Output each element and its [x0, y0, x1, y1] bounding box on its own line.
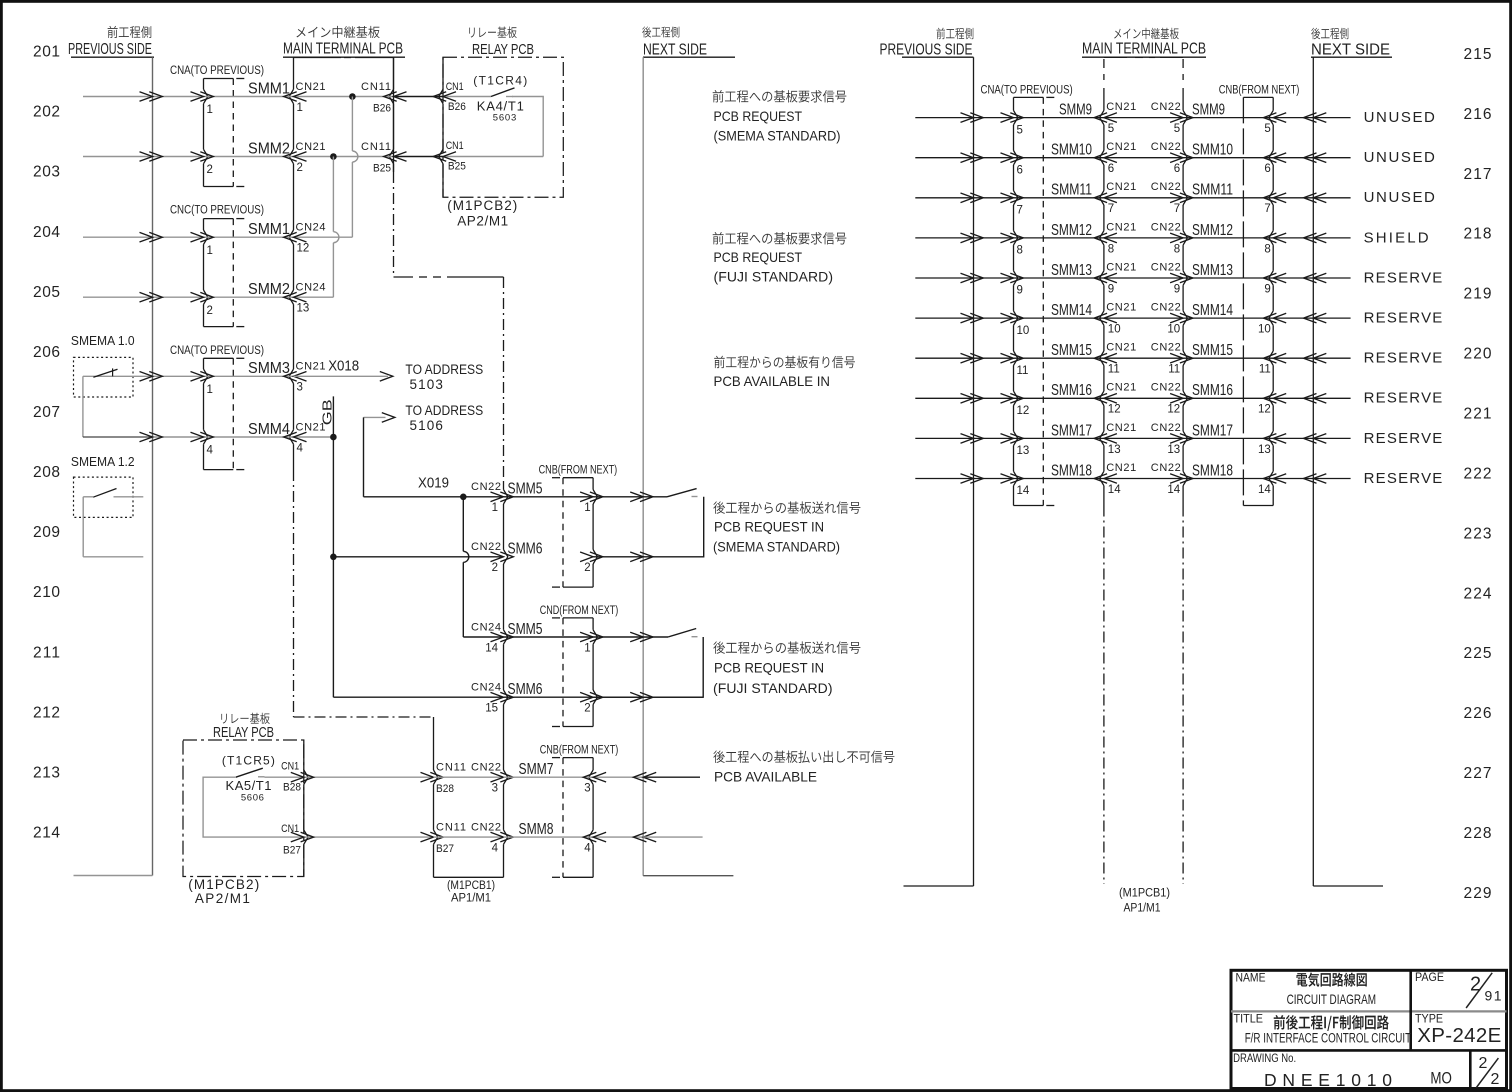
svg-text:225: 225 — [1464, 645, 1492, 662]
header MAIN TERMINAL PCB (right half) — [1114, 29, 1121, 39]
annotation PCB AVAILABLE — [713, 750, 725, 762]
svg-text:CN1: CN1 — [281, 760, 299, 772]
svg-text:10: 10 — [1108, 324, 1121, 336]
svg-text:DNEE1010: DNEE1010 — [1264, 1070, 1394, 1090]
svg-text:2: 2 — [1470, 973, 1481, 995]
svg-text:SMM7: SMM7 — [519, 761, 554, 778]
svg-text:(M1PCB2): (M1PCB2) — [188, 877, 259, 892]
svg-text:TITLE: TITLE — [1234, 1011, 1264, 1025]
svg-text:CNA(TO PREVIOUS): CNA(TO PREVIOUS) — [170, 343, 264, 357]
svg-text:5: 5 — [1017, 124, 1023, 136]
main PCB CN22/CN24 pin column x=503.5 — [503, 277, 505, 483]
svg-text:5103: 5103 — [410, 377, 443, 392]
wire SMM3 row 206 — [153, 375, 204, 377]
main terminal PCB outline (right half) — [1104, 56, 1127, 58]
svg-text:AP1/M1: AP1/M1 — [451, 891, 491, 905]
svg-text:PCB REQUEST IN: PCB REQUEST IN — [714, 659, 824, 675]
svg-text:227: 227 — [1464, 765, 1492, 782]
wire relay B25 row 203 — [443, 156, 543, 158]
svg-text:CN11: CN11 — [436, 762, 466, 774]
connector CNA(TO PREVIOUS) rows 202-203 — [204, 78, 234, 80]
svg-text:228: 228 — [1464, 825, 1492, 842]
svg-text:203: 203 — [33, 164, 60, 181]
svg-text:CN24: CN24 — [471, 621, 501, 633]
wire SMM1 row 202 CN21-1 to CN11/B26 — [294, 96, 394, 98]
svg-text:SMM16: SMM16 — [1051, 382, 1092, 399]
svg-text:10: 10 — [1017, 325, 1030, 337]
connector M1PCB1 box (left half bottom) — [434, 876, 504, 878]
svg-text:RESERVE: RESERVE — [1364, 430, 1443, 447]
svg-text:CN24: CN24 — [296, 222, 326, 234]
previous-side rail bottom stub (right half) — [904, 885, 974, 887]
header PREVIOUS SIDE (left half) — [108, 26, 118, 38]
previous-side rail (right half) — [973, 57, 975, 886]
svg-text:91: 91 — [1485, 988, 1502, 1004]
svg-text:B27: B27 — [436, 843, 454, 855]
switch PCB REQUEST IN (FUJI) — [668, 629, 696, 638]
svg-text:CN22: CN22 — [1151, 181, 1181, 193]
svg-text:RELAY PCB: RELAY PCB — [472, 42, 534, 58]
svg-text:KA5/T1: KA5/T1 — [226, 778, 272, 793]
net X019 riser from 5106 arrow — [363, 417, 365, 496]
svg-text:207: 207 — [33, 404, 60, 421]
svg-text:UNUSED: UNUSED — [1364, 109, 1435, 126]
svg-text:UNUSED: UNUSED — [1364, 149, 1435, 166]
svg-text:6: 6 — [1108, 163, 1114, 175]
svg-text:221: 221 — [1464, 406, 1492, 423]
wire SMM8 row 214 CN11 to CN22-4 — [434, 836, 504, 838]
relay T1CR4 contact — [443, 96, 491, 98]
svg-text:218: 218 — [1464, 226, 1492, 243]
svg-text:5603: 5603 — [493, 113, 517, 124]
svg-text:SMM5: SMM5 — [508, 621, 543, 638]
svg-text:CN22: CN22 — [471, 762, 501, 774]
svg-text:3: 3 — [492, 783, 498, 795]
annotation PCB REQUEST (SMEMA STANDARD) — [713, 90, 724, 102]
svg-text:212: 212 — [33, 704, 60, 721]
svg-text:CN21: CN21 — [296, 421, 326, 433]
svg-text:15: 15 — [485, 703, 498, 715]
svg-text:1: 1 — [584, 502, 590, 514]
wire SMM6 row 212 GB to CN24-15 — [333, 696, 503, 698]
svg-text:13: 13 — [1258, 444, 1271, 456]
wire SMM12 row 219 — [915, 237, 973, 239]
svg-text:MO: MO — [1430, 1069, 1452, 1088]
svg-text:12: 12 — [1108, 404, 1121, 416]
svg-text:7: 7 — [1174, 203, 1180, 215]
svg-text:CN21: CN21 — [296, 81, 326, 93]
svg-text:(M1PCB2): (M1PCB2) — [447, 198, 517, 213]
svg-text:5: 5 — [1264, 123, 1270, 135]
svg-text:215: 215 — [1464, 46, 1492, 63]
svg-text:AP2/M1: AP2/M1 — [457, 213, 508, 228]
svg-text:208: 208 — [33, 464, 60, 481]
vertical tie X019 to CN24-14 with hop over SMM6 — [462, 497, 464, 552]
annotation PCB AVAILABLE IN — [714, 356, 725, 368]
svg-text:8: 8 — [1108, 243, 1114, 255]
svg-text:(M1PCB1): (M1PCB1) — [1119, 888, 1170, 900]
svg-text:10: 10 — [1167, 324, 1180, 336]
svg-text:SMM14: SMM14 — [1051, 302, 1092, 319]
svg-text:SMM2: SMM2 — [248, 281, 290, 298]
header NEXT SIDE (right half) — [1311, 28, 1320, 40]
svg-text:CN22: CN22 — [1151, 141, 1181, 153]
svg-text:1: 1 — [207, 245, 213, 257]
switch PCB REQUEST IN (SMEMA) — [667, 489, 697, 497]
svg-text:CNB(FROM NEXT): CNB(FROM NEXT) — [539, 463, 618, 477]
svg-text:5: 5 — [1174, 123, 1180, 135]
svg-text:2: 2 — [1479, 1055, 1488, 1072]
wire SMM11 row 218 — [915, 197, 973, 199]
wire SMM6 row 212 CND out — [504, 696, 594, 698]
next-side rail bottom stub (right half) — [1313, 885, 1383, 887]
wire SMM5 row 208 CNB to switch — [593, 496, 667, 498]
svg-text:CN21: CN21 — [1106, 141, 1136, 153]
svg-text:CN21: CN21 — [296, 361, 326, 373]
relay PCB box M1PCB2 (top) — [443, 57, 563, 197]
svg-text:13: 13 — [1167, 444, 1180, 456]
svg-text:SMM12: SMM12 — [1192, 222, 1233, 239]
svg-text:8: 8 — [1017, 245, 1023, 257]
svg-text:SMM4: SMM4 — [248, 421, 290, 438]
svg-text:CIRCUIT DIAGRAM: CIRCUIT DIAGRAM — [1287, 991, 1376, 1007]
wire to address 5106 — [364, 416, 386, 418]
svg-text:6: 6 — [1174, 163, 1180, 175]
wire X018 to address 5103 — [294, 375, 389, 377]
svg-text:SMM11: SMM11 — [1051, 182, 1092, 199]
svg-text:210: 210 — [33, 584, 60, 601]
main PCB CN22 pin column (right half) — [1182, 88, 1184, 110]
svg-text:B26: B26 — [448, 101, 466, 113]
annotation PCB REQUEST (FUJI STANDARD) — [713, 232, 724, 244]
svg-text:1: 1 — [584, 642, 590, 654]
svg-text:2: 2 — [207, 164, 213, 176]
relay pins CN1 B26/B25 — [442, 57, 444, 89]
svg-text:2: 2 — [584, 703, 590, 715]
svg-text:RESERVE: RESERVE — [1364, 470, 1443, 487]
relay PCB box M1PCB2 (bottom) — [221, 714, 227, 724]
node junction GB/SMM4 — [330, 434, 337, 441]
svg-text:CN21: CN21 — [1106, 342, 1136, 354]
svg-text:201: 201 — [33, 44, 60, 61]
svg-text:CN1: CN1 — [446, 140, 464, 152]
svg-text:PREVIOUS SIDE: PREVIOUS SIDE — [68, 41, 152, 58]
svg-text:XP-242E: XP-242E — [1417, 1024, 1503, 1047]
svg-text:CND(FROM NEXT): CND(FROM NEXT) — [540, 603, 619, 617]
wire SMM18 row 225 — [915, 478, 973, 480]
main PCB CN21 pin column (right half) — [1103, 88, 1105, 110]
svg-text:4: 4 — [207, 445, 214, 457]
svg-text:SMM10: SMM10 — [1051, 142, 1092, 159]
svg-text:SMM18: SMM18 — [1192, 462, 1233, 479]
svg-text:SMM13: SMM13 — [1192, 262, 1233, 279]
connector CNC(TO PREVIOUS) rows 204-205 — [204, 218, 234, 220]
header MAIN TERMINAL PCB (left half) — [296, 27, 305, 37]
svg-text:RESERVE: RESERVE — [1364, 310, 1443, 327]
svg-text:14: 14 — [1258, 484, 1271, 496]
svg-text:CNC(TO PREVIOUS): CNC(TO PREVIOUS) — [170, 203, 264, 217]
svg-text:NAME: NAME — [1236, 970, 1266, 984]
svg-text:PCB REQUEST: PCB REQUEST — [714, 249, 803, 265]
svg-text:CN22: CN22 — [1151, 382, 1181, 394]
svg-text:224: 224 — [1464, 585, 1492, 602]
wire SMM10 row 217 — [915, 157, 973, 159]
wire SMM9 row 216 — [915, 117, 973, 119]
svg-text:9: 9 — [1017, 285, 1023, 297]
svg-text:7: 7 — [1264, 203, 1270, 215]
svg-text:SMM1: SMM1 — [248, 221, 290, 238]
svg-text:MAIN TERMINAL PCB: MAIN TERMINAL PCB — [1082, 41, 1206, 58]
wire SMM7 row 213 CN22-3 to CNB to next — [504, 776, 594, 778]
svg-text:B28: B28 — [283, 782, 301, 794]
relay T1CR5 contact — [236, 768, 263, 777]
wire SMM7 row 213 relay to CN11 — [304, 776, 434, 778]
main PCB CN11 pin column x=393.5 — [393, 58, 395, 90]
svg-text:14: 14 — [485, 642, 498, 654]
svg-text:SMM18: SMM18 — [1051, 462, 1092, 479]
M1PCB1 CN11 pin column x=433.5 — [433, 717, 435, 770]
svg-text:11: 11 — [1168, 364, 1180, 376]
svg-text:(FUJI STANDARD): (FUJI STANDARD) — [713, 680, 833, 696]
connector CND(FROM NEXT) rows 211-212 — [563, 617, 593, 619]
connector CNB(FROM NEXT) rows 213-214 — [563, 757, 593, 759]
node junction SMM2/CN24 x=333.4 — [330, 153, 337, 160]
svg-text:229: 229 — [1464, 885, 1492, 902]
svg-text:CN22: CN22 — [471, 481, 501, 493]
svg-text:CN24: CN24 — [296, 282, 326, 294]
wire SMM2 row 203 CN21-2 to CN11/B25 — [294, 156, 394, 158]
svg-text:SMM3: SMM3 — [248, 360, 290, 377]
svg-text:219: 219 — [1464, 286, 1492, 303]
svg-text:SMM9: SMM9 — [1192, 102, 1225, 119]
wire SMM1 row 204 previous stub — [83, 236, 153, 238]
svg-text:SMM12: SMM12 — [1051, 222, 1092, 239]
svg-text:11: 11 — [1017, 365, 1029, 377]
svg-text:CN21: CN21 — [1106, 101, 1136, 113]
svg-text:216: 216 — [1464, 106, 1492, 123]
previous-side rail bottom stub (left half) — [74, 875, 153, 877]
svg-text:9: 9 — [1174, 283, 1180, 295]
svg-text:6: 6 — [1264, 163, 1270, 175]
svg-text:9: 9 — [1108, 283, 1114, 295]
wire SMM1 row 204 CN24-12 tie — [294, 236, 353, 238]
main PCB CN21/CN24 pin column x=293.5 — [293, 58, 295, 90]
svg-text:7: 7 — [1108, 203, 1114, 215]
svg-text:PCB AVAILABLE IN: PCB AVAILABLE IN — [714, 373, 831, 389]
svg-text:204: 204 — [33, 224, 60, 241]
svg-text:CNA(TO PREVIOUS): CNA(TO PREVIOUS) — [170, 63, 264, 77]
svg-text:14: 14 — [1017, 485, 1030, 497]
node junction X019 — [460, 494, 467, 501]
svg-text:PAGE: PAGE — [1415, 970, 1444, 984]
svg-text:CN22: CN22 — [1151, 422, 1181, 434]
previous-side rail (left half) — [152, 57, 154, 875]
svg-text:PCB REQUEST IN: PCB REQUEST IN — [714, 518, 824, 534]
svg-text:211: 211 — [33, 644, 60, 661]
main terminal PCB outline (left half) — [294, 57, 342, 59]
wire X019 row 208 to CN22-1 — [364, 496, 504, 498]
svg-text:X018: X018 — [328, 359, 359, 375]
wire stub row 214 right of next rail — [643, 836, 702, 838]
svg-text:CN21: CN21 — [1106, 422, 1136, 434]
svg-text:8: 8 — [1264, 243, 1270, 255]
svg-text:4: 4 — [584, 843, 591, 855]
svg-text:KA4/T1: KA4/T1 — [477, 99, 524, 114]
svg-text:CN21: CN21 — [1106, 302, 1136, 314]
next-side rail (right half) — [1312, 57, 1314, 886]
svg-text:14: 14 — [1167, 484, 1180, 496]
svg-text:206: 206 — [33, 344, 60, 361]
wire SMM17 row 224 — [915, 437, 973, 439]
svg-text:3: 3 — [584, 783, 590, 795]
svg-text:2: 2 — [492, 562, 498, 574]
svg-text:205: 205 — [33, 284, 60, 301]
connector CNB(FROM NEXT) rows 208-209 — [563, 477, 593, 479]
wire SMM14 row 221 — [915, 317, 973, 319]
svg-text:MAIN TERMINAL PCB: MAIN TERMINAL PCB — [283, 41, 403, 58]
wire SMM13 row 220 — [915, 277, 973, 279]
wire SMM16 row 223 — [915, 397, 973, 399]
wire SMM6 row 209 GB to CN22-2 — [333, 556, 503, 558]
svg-text:B25: B25 — [448, 161, 466, 173]
svg-text:2: 2 — [207, 305, 213, 317]
svg-text:7: 7 — [1017, 205, 1023, 217]
svg-text:202: 202 — [33, 104, 60, 121]
svg-text:1: 1 — [492, 502, 498, 514]
wire SMM7 row 213 CN11 to CN22-3 — [434, 776, 504, 778]
vertical tie SMM2 to CN24-13 with hop — [332, 157, 334, 232]
svg-text:5106: 5106 — [410, 418, 443, 433]
svg-text:(T1CR4): (T1CR4) — [473, 73, 527, 87]
svg-text:9: 9 — [1264, 283, 1270, 295]
svg-text:2: 2 — [584, 562, 590, 574]
svg-text:CNA(TO PREVIOUS): CNA(TO PREVIOUS) — [981, 82, 1073, 96]
svg-text:UNUSED: UNUSED — [1364, 189, 1435, 206]
svg-text:10: 10 — [1258, 324, 1271, 336]
svg-text:CN21: CN21 — [1106, 462, 1136, 474]
svg-text:PCB AVAILABLE: PCB AVAILABLE — [714, 769, 817, 785]
header PREVIOUS SIDE (right half) — [937, 28, 945, 39]
svg-text:DRAWING No.: DRAWING No. — [1233, 1051, 1296, 1065]
relay2 pins CN1 B28/B27 — [303, 740, 305, 770]
svg-text:CN1: CN1 — [446, 81, 464, 93]
svg-text:PREVIOUS SIDE: PREVIOUS SIDE — [880, 41, 973, 58]
net GB vertical — [332, 396, 334, 556]
wire SMM8 row 214 CN22-4 to CNB to next — [504, 836, 594, 838]
svg-text:TO ADDRESS: TO ADDRESS — [405, 362, 483, 377]
svg-text:220: 220 — [1464, 346, 1492, 363]
svg-text:CN22: CN22 — [471, 822, 501, 834]
svg-text:RESERVE: RESERVE — [1364, 269, 1443, 286]
svg-text:5: 5 — [1108, 123, 1114, 135]
svg-text:CN22: CN22 — [1151, 221, 1181, 233]
wire SMM4 row 207 — [83, 436, 153, 438]
svg-text:(T1CR5): (T1CR5) — [222, 754, 275, 768]
svg-text:214: 214 — [33, 825, 60, 842]
wire SMM8 row 214 relay to CN11 — [304, 836, 434, 838]
svg-text:NEXT SIDE: NEXT SIDE — [1311, 41, 1390, 58]
svg-text:CN11: CN11 — [361, 81, 391, 93]
svg-text:CN11: CN11 — [361, 141, 391, 153]
svg-text:11: 11 — [1259, 364, 1271, 376]
svg-text:1: 1 — [207, 104, 213, 116]
svg-text:(SMEMA STANDARD): (SMEMA STANDARD) — [713, 538, 840, 554]
wire SMM5 row 211 CN24-14 tie — [463, 636, 503, 638]
relay2 coil KA5/T1 path — [203, 777, 304, 837]
svg-text:SMM9: SMM9 — [1059, 102, 1092, 119]
wire SMM15 row 222 — [915, 357, 973, 359]
svg-text:13: 13 — [1017, 445, 1030, 457]
svg-text:(SMEMA STANDARD): (SMEMA STANDARD) — [714, 127, 841, 143]
svg-text:222: 222 — [1464, 465, 1492, 482]
svg-text:SMM6: SMM6 — [508, 541, 543, 558]
svg-text:217: 217 — [1464, 166, 1492, 183]
svg-text:CN11: CN11 — [436, 822, 466, 834]
svg-text:SMM10: SMM10 — [1192, 142, 1233, 159]
svg-text:8: 8 — [1174, 243, 1180, 255]
node junction SMM1/CN24 x=352.4 — [349, 93, 356, 100]
svg-text:CN21: CN21 — [1106, 181, 1136, 193]
svg-text:CNB(FROM NEXT): CNB(FROM NEXT) — [1219, 82, 1300, 96]
node junction GB/SMM6 — [330, 554, 337, 561]
svg-text:CN1: CN1 — [281, 823, 299, 835]
svg-text:SMM6: SMM6 — [508, 681, 543, 698]
next-side rail (left half) — [642, 57, 644, 876]
svg-text:13: 13 — [1108, 444, 1121, 456]
svg-text:226: 226 — [1464, 705, 1492, 722]
svg-text:SMM8: SMM8 — [519, 821, 554, 838]
svg-text:B25: B25 — [373, 162, 391, 174]
svg-text:223: 223 — [1464, 525, 1492, 542]
svg-text:209: 209 — [33, 524, 60, 541]
relay coil KA4/T1 path — [512, 97, 543, 157]
svg-text:CN22: CN22 — [1151, 462, 1181, 474]
svg-text:3: 3 — [297, 382, 303, 394]
svg-text:1: 1 — [207, 384, 213, 396]
svg-text:SMM17: SMM17 — [1051, 422, 1092, 439]
svg-text:SMM11: SMM11 — [1192, 182, 1233, 199]
svg-text:CN21: CN21 — [1106, 221, 1136, 233]
wire SMM1 row 202 previous stub — [83, 96, 153, 98]
wire SMM2 row 205 previous stub — [83, 296, 153, 298]
svg-text:SMEMA 1.2: SMEMA 1.2 — [71, 454, 135, 469]
svg-text:(FUJI STANDARD): (FUJI STANDARD) — [714, 269, 834, 285]
wire SMM5 row 211 CND to switch — [504, 636, 594, 638]
svg-text:CN21: CN21 — [1106, 261, 1136, 273]
svg-text:CN21: CN21 — [296, 141, 326, 153]
svg-text:CN21: CN21 — [1106, 382, 1136, 394]
svg-text:5606: 5606 — [241, 793, 264, 804]
svg-text:4: 4 — [492, 843, 499, 855]
svg-text:2: 2 — [1491, 1071, 1500, 1088]
svg-text:SHIELD: SHIELD — [1364, 229, 1429, 246]
svg-text:F/R INTERFACE CONTROL CIRCUIT: F/R INTERFACE CONTROL CIRCUIT — [1245, 1031, 1411, 1046]
svg-text:2: 2 — [297, 162, 303, 174]
svg-text:CN22: CN22 — [1151, 302, 1181, 314]
svg-text:CN22: CN22 — [1151, 261, 1181, 273]
svg-text:213: 213 — [33, 764, 60, 781]
svg-text:RELAY PCB: RELAY PCB — [213, 725, 274, 741]
header NEXT SIDE (left half) — [642, 26, 651, 37]
svg-text:B27: B27 — [283, 844, 301, 856]
svg-text:TO ADDRESS: TO ADDRESS — [405, 403, 483, 418]
svg-text:SMM1: SMM1 — [248, 80, 290, 97]
svg-text:SMM17: SMM17 — [1192, 422, 1233, 439]
svg-text:12: 12 — [297, 243, 310, 255]
svg-text:4: 4 — [297, 442, 304, 454]
vertical tie SMM1 to CN24-12 with hop — [351, 97, 353, 152]
svg-text:13: 13 — [297, 303, 310, 315]
